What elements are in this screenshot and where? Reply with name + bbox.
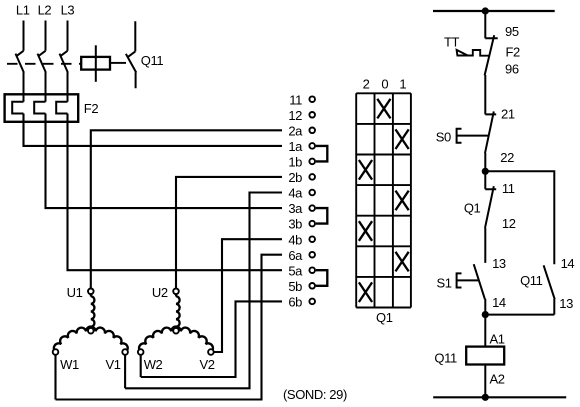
wire terminal 6b to W2 — [141, 301, 282, 377]
wire L2 to terminal 3a — [46, 114, 283, 209]
svg-text:2b: 2b — [288, 170, 302, 185]
svg-text:13: 13 — [559, 296, 573, 311]
svg-text:Q1: Q1 — [464, 200, 481, 215]
svg-text:A1: A1 — [490, 331, 505, 346]
F2 thermal element pole 1 — [12, 102, 23, 114]
svg-text:95: 95 — [505, 24, 519, 39]
wire branch bottom — [485, 314, 554, 316]
Q11 breaker contact — [126, 21, 136, 88]
motor 2 U-coil — [175, 294, 177, 296]
table X mark row 5 position 2 — [359, 221, 372, 241]
wire terminal 2b to U2 — [176, 177, 282, 288]
motor 2 terminal W2 — [138, 349, 144, 355]
svg-text:22: 22 — [500, 150, 514, 165]
motor 1 terminal W1 — [53, 349, 59, 355]
table X mark row 3 position 2 — [359, 160, 372, 180]
svg-text:14: 14 — [492, 295, 506, 310]
svg-text:W2: W2 — [144, 357, 163, 372]
contactor coil Q11 — [466, 347, 504, 365]
jumper link 5a-5b — [316, 270, 328, 286]
start button S1 NO contact 13-14 — [474, 264, 486, 314]
branch wire to Q11 holding contact — [485, 171, 554, 264]
motor 1 winding arch W1-V1 — [54, 327, 128, 352]
circuit breaker pole 2 (L2) — [38, 21, 46, 102]
svg-text:4a: 4a — [288, 186, 303, 201]
svg-text:S0: S0 — [436, 130, 451, 145]
switch table Q1 grid — [356, 93, 411, 307]
svg-text:F2: F2 — [506, 45, 521, 60]
svg-text:13: 13 — [492, 256, 506, 271]
linkage to Q11 aux contact — [110, 62, 126, 64]
svg-text:L1: L1 — [16, 3, 30, 18]
wire terminal 4b to V2 — [213, 239, 282, 352]
table X mark row 4 position 1 — [396, 191, 409, 211]
svg-text:12: 12 — [288, 108, 302, 123]
svg-text:A2: A2 — [490, 371, 505, 386]
svg-text:U2: U2 — [152, 285, 168, 300]
svg-text:F2: F2 — [84, 101, 99, 116]
Q11 holding NO contact — [544, 265, 555, 314]
circuit breaker pole 1 (L1) — [16, 21, 24, 102]
wire — [484, 315, 486, 347]
F2 NC contact 95-96 — [485, 35, 498, 114]
motor 1 terminal V1 — [122, 349, 128, 355]
svg-text:6b: 6b — [288, 295, 302, 310]
jumper link 1a-1b — [316, 146, 328, 162]
control circuit top rail — [433, 10, 555, 12]
svg-text:96: 96 — [505, 62, 519, 77]
svg-text:11: 11 — [289, 92, 302, 107]
wire terminal 2a to U1 — [91, 130, 282, 288]
junction dot bottom rail — [482, 394, 489, 401]
svg-text:1: 1 — [399, 77, 406, 92]
table X mark row 2 position 1 — [396, 129, 409, 149]
svg-text:U1: U1 — [67, 285, 83, 300]
svg-text:Q11: Q11 — [520, 273, 543, 288]
wire — [484, 171, 486, 189]
control circuit bottom rail — [433, 396, 566, 398]
wire L3 to terminal 5a — [68, 114, 283, 271]
motor 1 star node — [88, 328, 94, 334]
svg-text:3b: 3b — [288, 217, 302, 232]
junction dot node 14/A1 — [482, 311, 489, 318]
svg-text:2a: 2a — [288, 123, 303, 138]
svg-text:S1: S1 — [437, 276, 452, 291]
svg-text:Q11: Q11 — [141, 53, 164, 68]
svg-text:2: 2 — [363, 77, 370, 92]
svg-text:12: 12 — [502, 216, 516, 231]
wire — [484, 365, 486, 398]
thermal overload relay F2 box — [5, 94, 79, 122]
svg-text:5b: 5b — [288, 279, 302, 294]
svg-text:(SOND: 29): (SOND: 29) — [283, 387, 347, 402]
svg-text:L3: L3 — [61, 3, 75, 18]
motor 2 terminal V2 — [208, 349, 214, 355]
svg-text:TT: TT — [444, 34, 460, 49]
F2 thermal element pole 2 — [34, 102, 45, 114]
svg-text:5a: 5a — [288, 263, 303, 278]
Q1 NC contact 11-12 — [485, 186, 496, 263]
svg-text:W1: W1 — [60, 357, 79, 372]
S0 actuator — [457, 129, 490, 143]
S1 actuator — [457, 273, 479, 287]
svg-text:14: 14 — [561, 256, 575, 271]
table X mark row 6 position 1 — [396, 252, 409, 272]
wire terminal 6a to W1 — [56, 255, 283, 400]
breaker linkage dashed line — [7, 63, 81, 65]
F2 thermal element pole 3 — [56, 102, 67, 114]
svg-text:L2: L2 — [38, 3, 52, 18]
table X mark row 1 position 0 — [377, 99, 390, 119]
motor 2 winding arch W2-V2 — [139, 327, 213, 352]
svg-text:V2: V2 — [200, 357, 215, 372]
wire terminal 4a to V1 — [125, 193, 282, 389]
svg-text:V1: V1 — [106, 357, 121, 372]
svg-text:11: 11 — [502, 181, 515, 196]
motor 1 U-coil — [90, 294, 92, 296]
motor 2 star node — [173, 328, 179, 334]
table X mark row 7 position 2 — [359, 282, 372, 302]
svg-text:Q11: Q11 — [434, 350, 457, 365]
motor winding 1: terminal U1 — [88, 289, 94, 295]
svg-text:3a: 3a — [288, 201, 303, 216]
electromagnetic release box Q11 — [81, 57, 110, 70]
svg-text:21: 21 — [501, 106, 515, 121]
wire — [484, 11, 486, 38]
junction dot top rail — [482, 7, 489, 14]
circuit breaker pole 3 (L3) — [60, 21, 68, 102]
wire L1 to terminal 1a — [24, 114, 283, 146]
svg-text:4b: 4b — [288, 232, 302, 247]
stop button S0 NC contact 21-22 — [485, 111, 496, 171]
svg-text:1b: 1b — [288, 155, 302, 170]
svg-text:6a: 6a — [288, 248, 303, 263]
svg-text:Q1: Q1 — [376, 310, 393, 325]
jumper link 3a-3b — [316, 208, 328, 224]
svg-text:1a: 1a — [288, 139, 303, 154]
junction dot node 22 — [482, 168, 489, 175]
svg-text:0: 0 — [381, 77, 388, 92]
motor winding 2: terminal U2 — [173, 289, 179, 295]
